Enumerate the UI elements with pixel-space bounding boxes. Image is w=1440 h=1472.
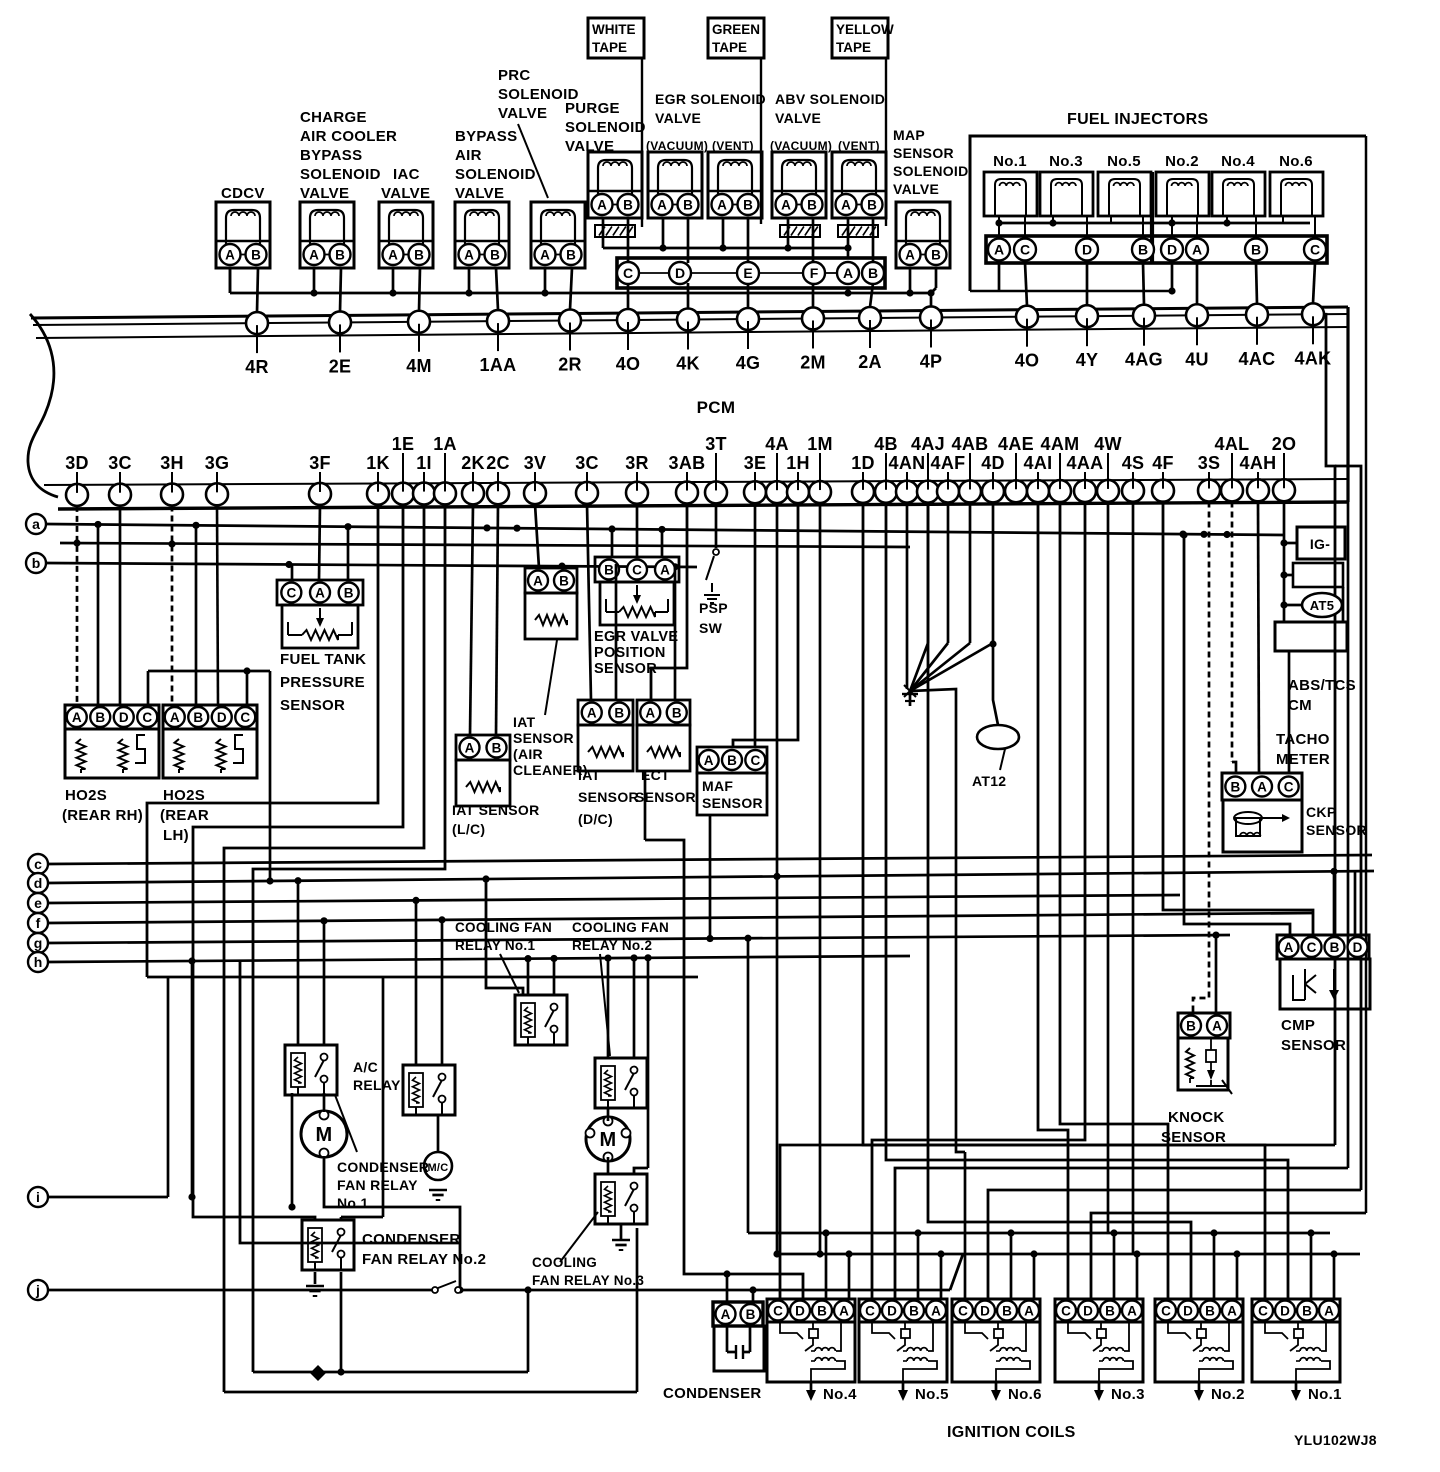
svg-text:A: A	[781, 197, 791, 212]
svg-text:No.5: No.5	[1107, 153, 1141, 170]
svg-text:IAC: IAC	[393, 166, 420, 183]
svg-text:g: g	[34, 935, 43, 951]
svg-text:FUEL TANK: FUEL TANK	[280, 651, 366, 668]
svg-text:No.1: No.1	[993, 153, 1027, 170]
svg-text:B: B	[817, 1303, 827, 1318]
svg-text:PCM: PCM	[697, 398, 736, 417]
svg-text:A: A	[1227, 1303, 1237, 1318]
svg-text:4B: 4B	[874, 434, 898, 454]
svg-text:A: A	[388, 247, 398, 262]
svg-text:B: B	[727, 753, 737, 768]
svg-text:PRESSURE: PRESSURE	[280, 674, 365, 691]
svg-text:B: B	[1002, 1303, 1012, 1318]
svg-text:3D: 3D	[65, 453, 89, 473]
svg-text:CHARGE: CHARGE	[300, 109, 367, 126]
svg-text:B: B	[1302, 1303, 1312, 1318]
svg-text:FUEL INJECTORS: FUEL INJECTORS	[1067, 111, 1208, 128]
svg-text:SOLENOID: SOLENOID	[455, 166, 536, 183]
svg-text:B: B	[683, 197, 693, 212]
svg-text:4O: 4O	[1015, 351, 1040, 371]
svg-text:4AH: 4AH	[1240, 453, 1277, 473]
svg-text:COOLING FAN: COOLING FAN	[572, 920, 669, 935]
svg-text:A: A	[309, 247, 319, 262]
svg-text:VALVE: VALVE	[455, 185, 504, 202]
svg-text:KNOCK: KNOCK	[1168, 1109, 1225, 1126]
svg-text:M: M	[600, 1129, 617, 1151]
svg-text:B: B	[1138, 242, 1148, 258]
svg-text:VALVE: VALVE	[893, 181, 939, 197]
svg-text:B: B	[490, 247, 500, 262]
svg-text:IG-: IG-	[1310, 536, 1330, 552]
svg-text:4P: 4P	[920, 351, 943, 371]
svg-text:4O: 4O	[616, 354, 641, 374]
svg-text:B: B	[1330, 940, 1340, 955]
svg-text:1A: 1A	[433, 434, 457, 454]
svg-text:TACHO: TACHO	[1276, 731, 1330, 748]
svg-text:BYPASS: BYPASS	[300, 147, 362, 164]
svg-text:RELAY No.2: RELAY No.2	[572, 938, 652, 953]
svg-text:d: d	[34, 875, 43, 891]
svg-text:MAP: MAP	[893, 127, 925, 143]
svg-text:B: B	[604, 562, 614, 577]
svg-text:MAF: MAF	[702, 778, 733, 794]
svg-text:2M: 2M	[800, 352, 826, 372]
svg-text:RELAY No.1: RELAY No.1	[455, 938, 535, 953]
svg-text:C: C	[286, 585, 296, 600]
svg-text:4R: 4R	[245, 357, 269, 377]
svg-text:3T: 3T	[705, 434, 727, 454]
svg-text:B: B	[1205, 1303, 1215, 1318]
svg-text:A: A	[1324, 1303, 1334, 1318]
svg-text:TAPE: TAPE	[836, 40, 871, 55]
svg-text:i: i	[36, 1189, 40, 1205]
svg-text:3E: 3E	[744, 453, 767, 473]
svg-text:A: A	[1192, 242, 1202, 258]
svg-text:A: A	[540, 247, 550, 262]
svg-text:B: B	[492, 740, 502, 755]
svg-text:B: B	[95, 710, 105, 725]
svg-text:3S: 3S	[1198, 453, 1221, 473]
svg-text:C: C	[632, 562, 642, 577]
svg-text:No.3: No.3	[1111, 1386, 1145, 1403]
svg-text:D: D	[1082, 242, 1092, 258]
svg-text:C: C	[1020, 242, 1030, 258]
svg-text:1AA: 1AA	[480, 355, 517, 375]
svg-text:2C: 2C	[486, 453, 510, 473]
svg-text:VALVE: VALVE	[655, 110, 701, 126]
svg-text:FAN RELAY No.2: FAN RELAY No.2	[362, 1251, 486, 1268]
svg-text:No.6: No.6	[1008, 1386, 1042, 1403]
svg-text:B: B	[672, 705, 682, 720]
svg-text:SENSOR: SENSOR	[1281, 1037, 1346, 1054]
svg-text:C: C	[958, 1303, 968, 1318]
svg-text:4M: 4M	[406, 356, 432, 376]
svg-text:D: D	[1353, 940, 1363, 955]
svg-text:3C: 3C	[575, 453, 599, 473]
svg-text:D: D	[217, 710, 227, 725]
svg-text:TAPE: TAPE	[712, 40, 747, 55]
svg-text:ABS/TCS: ABS/TCS	[1288, 677, 1356, 694]
svg-text:B: B	[414, 247, 424, 262]
svg-text:AIR: AIR	[455, 147, 482, 164]
svg-text:B: B	[614, 705, 624, 720]
svg-text:4AL: 4AL	[1215, 434, 1250, 454]
svg-text:B: B	[1230, 779, 1240, 794]
svg-text:A: A	[994, 242, 1004, 258]
svg-text:4AE: 4AE	[998, 434, 1034, 454]
svg-text:D: D	[1280, 1303, 1290, 1318]
svg-text:PRC: PRC	[498, 67, 531, 84]
svg-text:2K: 2K	[461, 453, 485, 473]
svg-text:SW: SW	[699, 620, 723, 636]
svg-text:A: A	[1212, 1018, 1222, 1033]
svg-text:2A: 2A	[858, 352, 882, 372]
svg-text:e: e	[34, 895, 42, 911]
svg-text:SENSOR: SENSOR	[1306, 822, 1367, 838]
svg-text:B: B	[746, 1307, 756, 1322]
svg-text:No.5: No.5	[915, 1386, 949, 1403]
svg-text:BYPASS: BYPASS	[455, 128, 517, 145]
svg-text:C: C	[1284, 779, 1294, 794]
svg-text:LH): LH)	[163, 827, 189, 844]
svg-text:FAN RELAY: FAN RELAY	[337, 1177, 418, 1193]
svg-text:D: D	[1183, 1303, 1193, 1318]
svg-text:4A: 4A	[765, 434, 789, 454]
svg-text:A: A	[1127, 1303, 1137, 1318]
svg-text:b: b	[32, 555, 41, 571]
svg-text:B: B	[867, 197, 877, 212]
svg-text:No.1: No.1	[1308, 1386, 1342, 1403]
svg-text:No.6: No.6	[1279, 153, 1313, 170]
svg-text:A: A	[170, 710, 180, 725]
svg-text:(AIR: (AIR	[513, 746, 543, 762]
svg-text:ABV SOLENOID: ABV SOLENOID	[775, 91, 885, 107]
svg-text:SENSOR: SENSOR	[594, 661, 657, 677]
svg-text:B: B	[1251, 242, 1261, 258]
svg-text:f: f	[36, 915, 41, 931]
svg-text:C: C	[750, 753, 760, 768]
svg-text:3H: 3H	[160, 453, 184, 473]
svg-text:CDCV: CDCV	[221, 185, 265, 202]
svg-text:IAT: IAT	[513, 714, 536, 730]
svg-text:4AB: 4AB	[952, 434, 989, 454]
svg-text:D: D	[675, 265, 685, 281]
svg-text:CONDENSER: CONDENSER	[362, 1231, 461, 1248]
svg-text:4S: 4S	[1122, 453, 1145, 473]
svg-text:D: D	[795, 1303, 805, 1318]
svg-text:No.4: No.4	[1221, 153, 1255, 170]
svg-text:(VENT): (VENT)	[712, 139, 754, 153]
svg-text:C: C	[142, 710, 152, 725]
svg-text:IAT SENSOR: IAT SENSOR	[452, 802, 540, 818]
svg-text:A: A	[464, 247, 474, 262]
svg-text:A: A	[1024, 1303, 1034, 1318]
svg-text:C: C	[623, 265, 633, 281]
svg-text:C: C	[240, 710, 250, 725]
svg-text:B: B	[807, 197, 817, 212]
svg-text:4K: 4K	[676, 354, 700, 374]
svg-text:3V: 3V	[524, 453, 547, 473]
svg-text:B: B	[1105, 1303, 1115, 1318]
svg-text:(REAR RH): (REAR RH)	[62, 807, 143, 824]
svg-text:METER: METER	[1276, 751, 1330, 768]
svg-text:A: A	[1257, 779, 1267, 794]
svg-text:EGR SOLENOID: EGR SOLENOID	[655, 91, 766, 107]
svg-text:AIR COOLER: AIR COOLER	[300, 128, 397, 145]
svg-text:(L/C): (L/C)	[452, 821, 485, 837]
svg-text:A: A	[587, 705, 597, 720]
svg-text:TAPE: TAPE	[592, 40, 627, 55]
svg-text:D: D	[980, 1303, 990, 1318]
svg-text:CLEANER): CLEANER)	[513, 762, 588, 778]
svg-text:A: A	[645, 705, 655, 720]
svg-text:SENSOR: SENSOR	[893, 145, 954, 161]
svg-text:B: B	[335, 247, 345, 262]
svg-text:2O: 2O	[1272, 434, 1297, 454]
svg-text:M/C: M/C	[427, 1162, 448, 1174]
svg-text:1M: 1M	[807, 434, 833, 454]
svg-text:M: M	[316, 1124, 333, 1146]
svg-text:D: D	[1083, 1303, 1093, 1318]
svg-text:A: A	[717, 197, 727, 212]
svg-text:HO2S: HO2S	[65, 787, 107, 804]
svg-text:4AF: 4AF	[931, 453, 966, 473]
svg-text:A: A	[315, 585, 325, 600]
svg-text:VALVE: VALVE	[381, 185, 430, 202]
svg-text:B: B	[566, 247, 576, 262]
svg-text:3G: 3G	[205, 453, 230, 473]
svg-text:RELAY: RELAY	[353, 1077, 401, 1093]
svg-text:VALVE: VALVE	[498, 105, 547, 122]
svg-text:4AM: 4AM	[1041, 434, 1080, 454]
svg-text:C: C	[1161, 1303, 1171, 1318]
svg-text:2E: 2E	[329, 356, 352, 376]
svg-text:CONDENSER: CONDENSER	[663, 1385, 762, 1402]
svg-text:a: a	[32, 516, 40, 532]
svg-text:B: B	[931, 247, 941, 262]
svg-text:A: A	[839, 1303, 849, 1318]
svg-text:C: C	[1258, 1303, 1268, 1318]
svg-text:A: A	[660, 562, 670, 577]
svg-text:B: B	[193, 710, 203, 725]
svg-text:4F: 4F	[1152, 453, 1174, 473]
svg-text:A: A	[597, 197, 607, 212]
svg-text:1D: 1D	[851, 453, 875, 473]
svg-text:4AN: 4AN	[889, 453, 926, 473]
svg-text:PURGE: PURGE	[565, 100, 620, 117]
svg-text:SENSOR: SENSOR	[702, 795, 763, 811]
svg-text:SENSOR: SENSOR	[578, 789, 639, 805]
svg-text:D: D	[887, 1303, 897, 1318]
svg-text:j: j	[35, 1282, 40, 1298]
svg-text:WHITE: WHITE	[592, 22, 636, 37]
svg-text:4AC: 4AC	[1239, 349, 1276, 369]
svg-text:C: C	[1310, 242, 1320, 258]
svg-text:No.2: No.2	[1165, 153, 1199, 170]
svg-text:1I: 1I	[416, 453, 432, 473]
svg-text:B: B	[623, 197, 633, 212]
svg-text:No.2: No.2	[1211, 1386, 1245, 1403]
svg-text:3F: 3F	[309, 453, 331, 473]
svg-text:YLU102WJ8: YLU102WJ8	[1294, 1432, 1377, 1448]
svg-text:3R: 3R	[625, 453, 649, 473]
svg-text:VALVE: VALVE	[775, 110, 821, 126]
svg-text:(VACUUM): (VACUUM)	[646, 139, 708, 153]
svg-text:(D/C): (D/C)	[578, 811, 613, 827]
svg-text:1H: 1H	[786, 453, 810, 473]
svg-text:3AB: 3AB	[669, 453, 706, 473]
svg-text:B: B	[743, 197, 753, 212]
svg-text:C: C	[1061, 1303, 1071, 1318]
svg-text:(VENT): (VENT)	[838, 139, 880, 153]
svg-text:SOLENOID: SOLENOID	[300, 166, 381, 183]
svg-text:EGR VALVE: EGR VALVE	[594, 629, 678, 645]
svg-text:CMP: CMP	[1281, 1017, 1315, 1034]
svg-text:A: A	[465, 740, 475, 755]
svg-text:IGNITION COILS: IGNITION COILS	[947, 1424, 1076, 1441]
svg-text:A: A	[931, 1303, 941, 1318]
svg-text:A: A	[721, 1307, 731, 1322]
svg-text:SENSOR: SENSOR	[280, 697, 345, 714]
svg-text:SOLENOID: SOLENOID	[565, 119, 646, 136]
svg-text:AT5: AT5	[1310, 598, 1335, 613]
svg-text:C: C	[865, 1303, 875, 1318]
svg-text:F: F	[810, 265, 819, 281]
svg-text:IAT: IAT	[578, 767, 601, 783]
svg-text:CKP: CKP	[1306, 804, 1336, 820]
svg-text:4Y: 4Y	[1076, 350, 1099, 370]
svg-text:PSP: PSP	[699, 600, 728, 616]
svg-text:4AA: 4AA	[1067, 453, 1104, 473]
svg-text:1K: 1K	[366, 453, 390, 473]
svg-text:4W: 4W	[1094, 434, 1122, 454]
svg-text:4G: 4G	[736, 353, 761, 373]
svg-text:B: B	[559, 573, 569, 588]
svg-text:4AJ: 4AJ	[911, 434, 945, 454]
svg-text:E: E	[743, 265, 752, 281]
svg-text:A/C: A/C	[353, 1059, 378, 1075]
svg-text:4AG: 4AG	[1125, 350, 1163, 370]
svg-text:A: A	[843, 265, 853, 281]
svg-text:4AI: 4AI	[1024, 453, 1053, 473]
svg-text:POSITION: POSITION	[594, 645, 666, 661]
svg-text:A: A	[841, 197, 851, 212]
svg-text:4U: 4U	[1185, 349, 1209, 369]
svg-text:A: A	[72, 710, 82, 725]
svg-text:SENSOR: SENSOR	[513, 730, 574, 746]
svg-text:D: D	[1167, 242, 1177, 258]
svg-text:B: B	[909, 1303, 919, 1318]
svg-text:SOLENOID: SOLENOID	[893, 163, 969, 179]
svg-text:GREEN: GREEN	[712, 22, 760, 37]
svg-text:COOLING FAN: COOLING FAN	[455, 920, 552, 935]
svg-text:A: A	[905, 247, 915, 262]
svg-text:A: A	[704, 753, 714, 768]
svg-text:VALVE: VALVE	[300, 185, 349, 202]
svg-text:C: C	[773, 1303, 783, 1318]
svg-text:SENSOR: SENSOR	[1161, 1129, 1226, 1146]
svg-text:FAN RELAY No.3: FAN RELAY No.3	[532, 1273, 644, 1288]
svg-text:No.1: No.1	[337, 1195, 369, 1211]
svg-text:c: c	[34, 856, 42, 872]
svg-text:B: B	[1186, 1018, 1196, 1033]
svg-text:No.3: No.3	[1049, 153, 1083, 170]
svg-text:3C: 3C	[108, 453, 132, 473]
svg-text:CM: CM	[1288, 697, 1312, 714]
svg-text:A: A	[657, 197, 667, 212]
svg-text:B: B	[868, 265, 878, 281]
svg-text:B: B	[344, 585, 354, 600]
svg-text:VALVE: VALVE	[565, 138, 614, 155]
svg-text:AT12: AT12	[972, 773, 1006, 789]
svg-text:No.4: No.4	[823, 1386, 857, 1403]
svg-text:A: A	[533, 573, 543, 588]
svg-text:1E: 1E	[392, 434, 415, 454]
svg-text:4D: 4D	[981, 453, 1005, 473]
svg-text:(REAR: (REAR	[160, 807, 209, 824]
svg-text:(VACUUM): (VACUUM)	[770, 139, 832, 153]
svg-text:C: C	[1307, 940, 1317, 955]
svg-text:B: B	[251, 247, 261, 262]
svg-text:A: A	[225, 247, 235, 262]
svg-text:2R: 2R	[558, 354, 582, 374]
svg-text:D: D	[119, 710, 129, 725]
svg-text:A: A	[1284, 940, 1294, 955]
svg-text:YELLOW: YELLOW	[836, 22, 894, 37]
svg-text:HO2S: HO2S	[163, 787, 205, 804]
svg-text:h: h	[34, 954, 43, 970]
